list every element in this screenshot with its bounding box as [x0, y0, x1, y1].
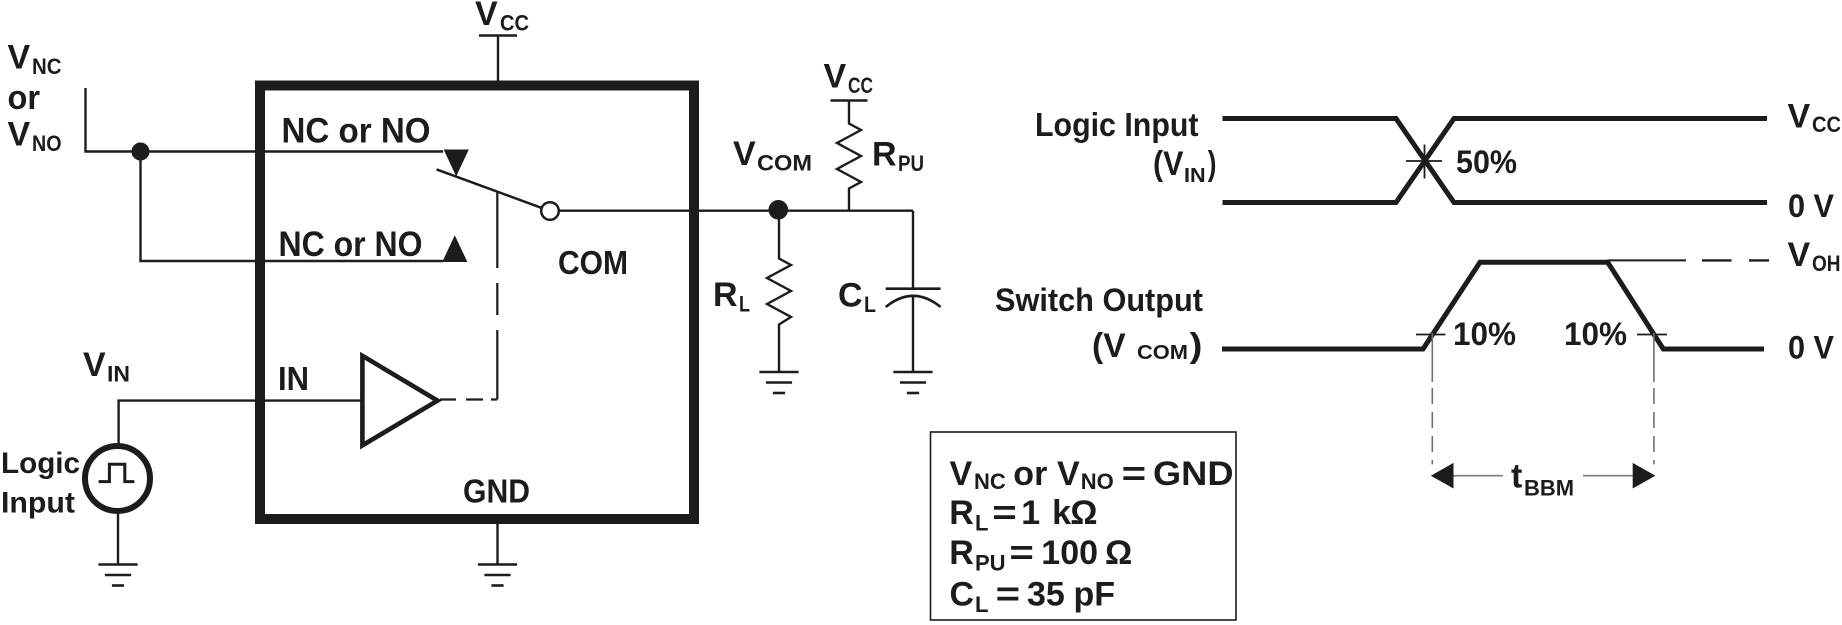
svg-text:NO: NO	[32, 131, 62, 156]
10% tick (rising)	[1416, 334, 1446, 336]
svg-text:IN: IN	[107, 362, 130, 387]
svg-text:(V: (V	[1092, 327, 1126, 365]
tBBM arrow (right)	[1633, 463, 1656, 489]
svg-text:V: V	[1788, 236, 1811, 274]
wire VCC to box	[497, 37, 499, 84]
svg-text:=: =	[1122, 455, 1147, 493]
svg-text:Ω: Ω	[1105, 534, 1132, 572]
svg-text:Ω: Ω	[1070, 494, 1097, 532]
pulse symbol inside source	[99, 464, 135, 481]
svg-text:1: 1	[1021, 494, 1040, 532]
svg-text:t: t	[1511, 458, 1522, 496]
svg-text:NC or NO: NC or NO	[282, 112, 431, 151]
wire source to ground	[117, 511, 119, 564]
source label Logic Input	[1, 447, 80, 520]
wire GND pin to ground	[496, 520, 498, 564]
svg-text:50%: 50%	[1456, 144, 1517, 180]
svg-text:L: L	[975, 592, 988, 617]
svg-text:100: 100	[1041, 534, 1098, 572]
svg-text:V: V	[83, 346, 106, 384]
svg-text:V: V	[824, 58, 847, 96]
resistor RPU label	[872, 136, 924, 177]
svg-text:0 V: 0 V	[1788, 188, 1835, 224]
svg-text:V: V	[1788, 98, 1811, 136]
svg-text:NC: NC	[32, 54, 62, 79]
switch lever	[437, 169, 542, 207]
svg-text:CC: CC	[500, 11, 529, 36]
svg-text:C: C	[950, 576, 975, 614]
power VCC (above RPU) label	[824, 58, 874, 99]
svg-text:IN: IN	[1184, 165, 1206, 187]
node junction dot A	[132, 143, 150, 161]
50% crossing tick	[1406, 145, 1442, 179]
wire VIN to buffer	[119, 401, 363, 444]
svg-text:COM: COM	[558, 244, 628, 281]
svg-text:): )	[1208, 145, 1217, 183]
dashed switch control line (horizontal to buffer)	[440, 398, 497, 400]
resistor RL	[767, 211, 791, 372]
power VCC bar (above RPU)	[831, 99, 868, 102]
node VCOM label	[733, 135, 812, 176]
svg-text:0 V: 0 V	[1788, 330, 1835, 366]
10% tick (falling)	[1637, 334, 1667, 336]
svg-text:V: V	[475, 0, 498, 33]
capacitor CL label	[838, 277, 876, 318]
power VCC (top) label	[475, 0, 529, 36]
svg-text:=: =	[996, 576, 1021, 614]
waveform VCOM trace	[1222, 262, 1764, 349]
svg-text:35: 35	[1027, 576, 1065, 614]
svg-text:): )	[1190, 327, 1203, 365]
DUT box U1	[260, 86, 694, 520]
svg-text:C: C	[838, 277, 863, 315]
svg-text:PU: PU	[898, 151, 924, 176]
capacitor CL	[912, 211, 914, 289]
dashed switch control line (vertical)	[496, 192, 498, 400]
level label VCC	[1788, 98, 1842, 138]
svg-text:NO: NO	[1081, 469, 1114, 494]
label tBBM	[1511, 458, 1574, 501]
svg-text:R: R	[949, 534, 974, 572]
VOH reference line	[1608, 259, 1686, 261]
svg-text:R: R	[949, 494, 974, 532]
svg-text:Switch Output: Switch Output	[995, 282, 1203, 318]
svg-text:COM: COM	[1137, 342, 1188, 364]
svg-text:CC: CC	[1812, 112, 1841, 137]
tBBM arrow line (left)	[1454, 475, 1504, 477]
svg-text:R: R	[872, 136, 897, 174]
tBBM measurement vertical line (left)	[1431, 333, 1433, 464]
node VIN label	[83, 346, 130, 387]
level label VOH	[1788, 236, 1841, 276]
wire VNC/VNO stub	[86, 88, 444, 152]
svg-text:Logic: Logic	[1, 447, 80, 480]
svg-text:R: R	[713, 276, 738, 314]
conditions box	[931, 432, 1237, 620]
svg-text:(V: (V	[1153, 145, 1184, 183]
waveform VIN trace high-to-low	[1223, 119, 1768, 203]
switch contact triangle (NO, points up)	[442, 235, 467, 262]
ground (below box)	[478, 565, 517, 586]
source V1 (logic input pulse source)	[85, 446, 150, 511]
svg-text:V: V	[950, 455, 973, 493]
svg-text:=: =	[1009, 534, 1034, 572]
svg-text:GND: GND	[1153, 455, 1234, 493]
svg-text:V: V	[1057, 455, 1080, 493]
svg-text:NC: NC	[974, 469, 1006, 494]
resistor RPU	[837, 101, 861, 211]
wire COM to VCOM node	[559, 209, 913, 211]
switch contact triangle (NC, points down)	[444, 150, 469, 177]
svg-text:V: V	[8, 39, 31, 77]
svg-text:or: or	[1013, 455, 1047, 493]
buffer U2 (driver triangle)	[362, 356, 437, 446]
svg-text:NC or NO: NC or NO	[279, 225, 423, 264]
wire junction to NO pin	[141, 152, 444, 262]
ground (below source)	[98, 565, 137, 586]
resistor RL label	[713, 276, 750, 317]
svg-text:PU: PU	[975, 551, 1006, 576]
node VCOM junction dot	[769, 200, 789, 220]
node VNC/VNO label	[8, 39, 62, 157]
waveform label (VCOM)	[1092, 327, 1202, 365]
svg-text:=: =	[992, 494, 1017, 532]
svg-text:or: or	[8, 79, 41, 117]
waveform VIN trace low-to-high	[1223, 119, 1768, 203]
svg-text:IN: IN	[278, 360, 309, 397]
svg-text:Input: Input	[1, 487, 75, 520]
tBBM measurement vertical line (right)	[1653, 333, 1655, 464]
tBBM arrow (left)	[1431, 463, 1454, 489]
svg-text:CC: CC	[848, 73, 873, 98]
svg-text:GND: GND	[463, 473, 530, 510]
svg-text:L: L	[864, 292, 876, 317]
svg-text:L: L	[975, 511, 988, 536]
svg-text:OH: OH	[1812, 251, 1841, 276]
svg-text:V: V	[733, 135, 756, 173]
svg-text:COM: COM	[757, 151, 812, 176]
ground (below RL)	[759, 372, 798, 393]
svg-text:Logic Input: Logic Input	[1035, 106, 1199, 143]
svg-text:V: V	[8, 116, 31, 154]
svg-text:BBM: BBM	[1524, 476, 1574, 501]
ground (below CL)	[893, 372, 932, 393]
svg-text:10%: 10%	[1564, 316, 1627, 352]
svg-text:k: k	[1052, 494, 1071, 532]
switch pole circle	[541, 202, 559, 220]
svg-text:pF: pF	[1074, 576, 1116, 614]
svg-text:10%: 10%	[1453, 316, 1516, 352]
tBBM arrow line (right)	[1583, 475, 1633, 477]
waveform label (VIN)	[1153, 145, 1217, 187]
svg-text:L: L	[739, 292, 750, 317]
power VCC bar	[479, 34, 517, 37]
